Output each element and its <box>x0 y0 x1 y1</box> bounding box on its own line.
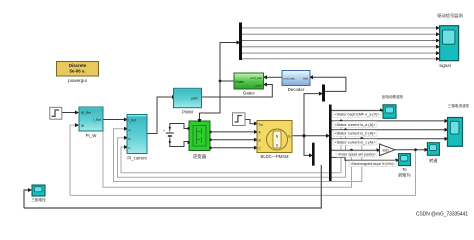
svg-text:Te: Te <box>402 167 407 172</box>
svg-text:m: m <box>288 134 291 138</box>
svg-text:BLDC—PMSM: BLDC—PMSM <box>261 154 289 159</box>
svg-text:<Stator current is_b (A)>: <Stator current is_b (A)> <box>335 132 376 136</box>
svg-text:Hall: Hall <box>303 76 309 80</box>
svg-text:Discrete: Discrete <box>69 63 87 68</box>
svg-text:PI_current: PI_current <box>127 156 147 161</box>
svg-text:W_Ref: W_Ref <box>81 111 91 115</box>
svg-text:<Stator current is_c (A)>: <Stator current is_c (A)> <box>335 141 376 145</box>
svg-text:pwm: pwm <box>191 97 198 101</box>
svg-text:驱动信号监测: 驱动信号监测 <box>437 12 462 19</box>
svg-text:转矩Te: 转矩Te <box>398 172 411 179</box>
svg-text:PWM: PWM <box>182 110 193 115</box>
svg-text:Tm: Tm <box>259 123 264 127</box>
svg-text:I_Ref: I_Ref <box>128 119 136 123</box>
svg-text:<Electromagnetic torque Te (N*: <Electromagnetic torque Te (N*m)> <box>351 162 395 166</box>
svg-text:I_Ref: I_Ref <box>93 118 101 122</box>
svg-text:Gates: Gates <box>236 80 245 84</box>
svg-text:逆变器: 逆变器 <box>193 153 207 160</box>
svg-text:CSDN @mG_73335441: CSDN @mG_73335441 <box>416 212 468 218</box>
svg-text:反电动势波形: 反电动势波形 <box>382 94 404 99</box>
svg-text:三相电压: 三相电压 <box>31 197 46 202</box>
svg-text:Gates: Gates <box>243 91 256 96</box>
svg-text:<Stator back EMF e_a (V)>: <Stator back EMF e_a (V)> <box>335 113 380 117</box>
svg-text:W: W <box>81 124 84 128</box>
svg-text:emf_abc: emf_abc <box>284 76 296 80</box>
svg-text:Decoder: Decoder <box>288 87 305 92</box>
svg-text:ia: ia <box>129 128 132 132</box>
svg-text:30/pi: 30/pi <box>382 148 389 152</box>
svg-text:powergui: powergui <box>68 78 87 83</box>
svg-text:ib: ib <box>129 137 132 141</box>
svg-text:<Rotor speed wm (rad/s)>: <Rotor speed wm (rad/s)> <box>338 153 376 157</box>
svg-text:+: + <box>163 129 165 133</box>
svg-text:pwm: pwm <box>256 84 263 88</box>
svg-text:<Stator current is_a (A)>: <Stator current is_a (A)> <box>335 123 376 127</box>
svg-text:5e-06 s.: 5e-06 s. <box>69 68 85 73</box>
svg-text:emf_abc: emf_abc <box>250 76 262 80</box>
svg-text:转速: 转速 <box>429 157 438 164</box>
svg-text:PI_W: PI_W <box>86 133 98 138</box>
svg-text:signal: signal <box>439 63 450 68</box>
svg-text:三相电流波形: 三相电流波形 <box>448 103 470 108</box>
svg-text:B: B <box>259 139 261 143</box>
